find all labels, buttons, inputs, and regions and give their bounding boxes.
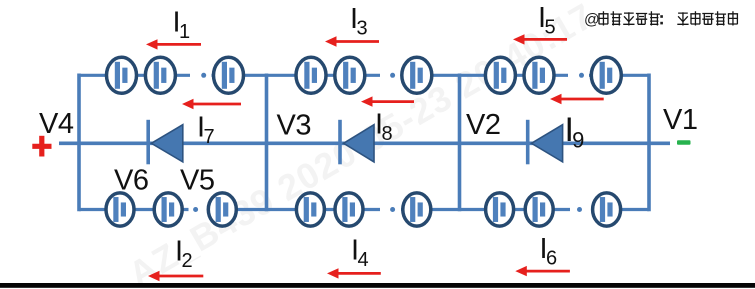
wire: right vertical (node V1 branch) bbox=[647, 74, 651, 212]
wire: bottom string rail bbox=[79, 208, 649, 211]
wire break dots, bottom module 2 bbox=[380, 206, 401, 214]
node label V4 bbox=[39, 108, 74, 140]
svg-text:1: 1 bbox=[179, 21, 190, 43]
current arrow I5 bbox=[513, 34, 567, 44]
wire: main bus V4..V1 bbox=[59, 142, 670, 146]
label I3 bbox=[350, 3, 368, 40]
svg-text:6: 6 bbox=[546, 248, 557, 270]
battery cell B15 (bottom string) bbox=[403, 193, 431, 226]
current arrow I1 bbox=[146, 39, 201, 49]
current arrow I4 bbox=[327, 268, 381, 278]
wire break dots, bottom module 3 bbox=[570, 206, 592, 214]
battery cell B18 (bottom string) bbox=[593, 193, 621, 226]
current arrow I3 bbox=[325, 36, 379, 46]
svg-text:V1: V1 bbox=[663, 104, 697, 136]
battery cell B3 (top string) bbox=[214, 57, 244, 93]
battery cell B16 (bottom string) bbox=[486, 193, 514, 226]
wire break dots, top module 1 bbox=[190, 71, 212, 79]
current arrow under top string module 3 bbox=[550, 94, 604, 104]
svg-text:V3: V3 bbox=[277, 110, 311, 142]
current arrow I6 bbox=[515, 266, 570, 276]
wire: node V2 vertical bbox=[458, 74, 462, 212]
label I4 bbox=[351, 235, 369, 272]
current arrow under top string module 2 bbox=[361, 96, 414, 106]
battery cell B5 (top string) bbox=[335, 57, 365, 93]
battery cell B6 (top string) bbox=[402, 57, 432, 93]
node label V3 bbox=[277, 110, 311, 142]
svg-text:4: 4 bbox=[358, 249, 369, 271]
battery cell B8 (top string) bbox=[524, 57, 554, 93]
node label V2 bbox=[466, 109, 500, 141]
svg-text:V6: V6 bbox=[114, 165, 148, 197]
wire: left vertical (node V4 branch) bbox=[77, 74, 81, 212]
label I7 bbox=[197, 112, 215, 149]
diode D3 (current I9, cathode left) bbox=[528, 120, 563, 165]
battery cell B1 (top string) bbox=[107, 57, 137, 93]
label I1 bbox=[173, 6, 191, 43]
wire: top string rail bbox=[79, 74, 649, 77]
label I9 bbox=[565, 111, 585, 153]
battery cell B2 (top string) bbox=[145, 57, 175, 93]
svg-text:V4: V4 bbox=[39, 108, 74, 140]
bottom black divider bar bbox=[0, 283, 755, 288]
wire break dots, top module 2 bbox=[380, 71, 401, 79]
svg-text:8: 8 bbox=[382, 123, 393, 145]
battery cell B13 (bottom string) bbox=[296, 193, 324, 226]
current arrow under top string module 1 bbox=[182, 99, 241, 109]
label I6 bbox=[540, 233, 558, 270]
node label V6 bbox=[114, 165, 148, 197]
battery cell B7 (top string) bbox=[485, 57, 515, 93]
positive terminal + at node V4 bbox=[32, 136, 51, 157]
battery cell B11 (bottom string) bbox=[154, 193, 182, 226]
battery cell B12 (bottom string) bbox=[208, 193, 236, 226]
battery cell B9 (top string) bbox=[591, 57, 621, 93]
wire break dots, top module 3 bbox=[568, 71, 589, 79]
svg-text:3: 3 bbox=[357, 18, 368, 40]
battery cell B17 (bottom string) bbox=[525, 193, 553, 226]
diode D1 (current I7, cathode left) bbox=[148, 120, 183, 165]
wire: node V3 vertical bbox=[265, 74, 269, 212]
current arrow I2 bbox=[148, 271, 203, 281]
svg-text:V5: V5 bbox=[180, 165, 214, 197]
label I5 bbox=[538, 2, 556, 39]
battery cell B10 (bottom string) bbox=[106, 193, 134, 226]
decorative watermark (not part of circuit) bbox=[122, 0, 601, 289]
negative terminal - at node V1 bbox=[677, 140, 691, 145]
caption text '@WeChat account: Huaxia Energy' (decorative) bbox=[584, 11, 738, 28]
svg-text:V2: V2 bbox=[466, 109, 500, 141]
battery cell B4 (top string) bbox=[296, 57, 326, 93]
label I8 bbox=[375, 109, 393, 146]
svg-text:@: @ bbox=[584, 12, 600, 29]
battery cell B14 (bottom string) bbox=[335, 193, 363, 226]
svg-text:7: 7 bbox=[204, 126, 215, 148]
svg-text:2: 2 bbox=[182, 250, 193, 272]
svg-text:5: 5 bbox=[545, 17, 556, 39]
node label V5 bbox=[180, 165, 214, 197]
diode D2 (current I8, cathode left) bbox=[340, 120, 374, 165]
node label V1 bbox=[663, 104, 697, 136]
label I2 bbox=[175, 236, 193, 273]
svg-text:9: 9 bbox=[572, 128, 584, 153]
wire break dots, bottom module 1 bbox=[189, 206, 208, 214]
